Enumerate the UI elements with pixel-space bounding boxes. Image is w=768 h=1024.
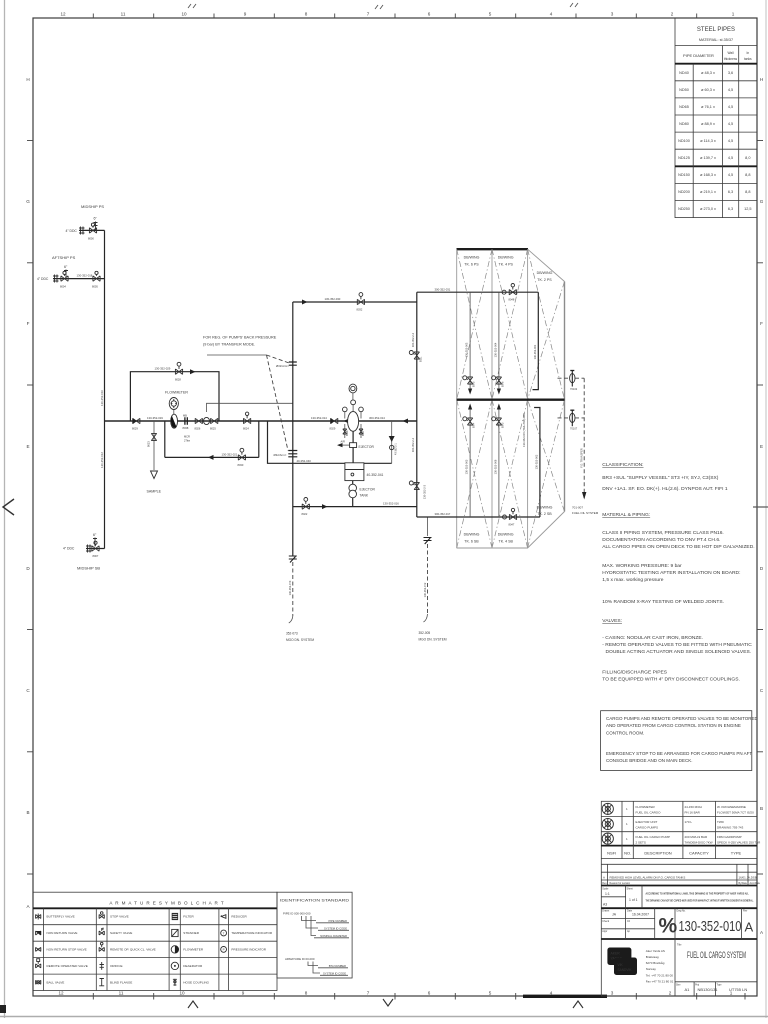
valve 8025 [210, 418, 218, 430]
svg-text:130-352-002: 130-352-002 [535, 454, 539, 469]
svg-text:8026: 8026 [195, 427, 201, 431]
svg-text:300-352-2-2: 300-352-2-2 [411, 437, 415, 452]
svg-text:130-352-072: 130-352-072 [423, 582, 427, 597]
svg-text:6,3: 6,3 [728, 190, 733, 194]
svg-text:130-352-073: 130-352-073 [288, 580, 292, 595]
svg-text:NON RETURN VALVE: NON RETURN VALVE [47, 931, 78, 935]
label tank 4 ps [498, 256, 514, 267]
wire ejector circulation riser [292, 302, 294, 556]
svg-text:EJECTOR UNIT: EJECTOR UNIT [636, 820, 658, 824]
symbol reducer [221, 915, 226, 919]
symbol butterfly valve [36, 914, 41, 920]
svg-text:BUTTERFLY VALVE: BUTTERFLY VALVE [47, 915, 75, 919]
svg-text:MIDSHIP PS: MIDSHIP PS [81, 204, 104, 209]
svg-text:PIPE NUMBER: PIPE NUMBER [328, 919, 347, 923]
wire bypass upper [130, 372, 219, 421]
svg-text:4,5: 4,5 [728, 139, 733, 143]
svg-text:24-150 M3/H: 24-150 M3/H [685, 805, 702, 809]
frame letters right [760, 77, 764, 935]
svg-text:- CASING: NODULAR CAST IRON, B: - CASING: NODULAR CAST IRON, BRONZE. [602, 635, 703, 641]
wire tk6 sb suction [468, 404, 472, 518]
svg-text:130-352-021: 130-352-021 [222, 452, 238, 456]
svg-text:ø 114,3 x: ø 114,3 x [700, 139, 716, 143]
svg-text:SYSTEM ID CODE: SYSTEM ID CODE [324, 927, 347, 931]
revision table [601, 864, 760, 885]
svg-text:200 M3/H-9 BAR: 200 M3/H-9 BAR [685, 835, 709, 839]
tank divider 4/2 [527, 249, 529, 548]
wire mgo branch right [419, 517, 447, 642]
svg-text:11: 11 [119, 991, 124, 996]
svg-text:ø 76,1 x: ø 76,1 x [701, 105, 715, 109]
svg-text:DOUBLE ACTING ACTUATOR AND SIN: DOUBLE ACTING ACTUATOR AND SINGLE SOLENO… [606, 649, 752, 655]
valve 8048 upper manifold [509, 284, 517, 302]
svg-text:300-352-031: 300-352-031 [435, 287, 451, 291]
svg-text:PIPE DIAMETER: PIPE DIAMETER [683, 53, 714, 58]
svg-text:300-352-014: 300-352-014 [369, 416, 385, 420]
wire tk6 ps suction [468, 292, 472, 394]
valve 8024 remote [243, 412, 251, 430]
center mark right dash [753, 506, 768, 508]
svg-text:40-352-040: 40-352-040 [297, 459, 312, 463]
svg-text:E: E [26, 444, 29, 449]
svg-text:ø 219,1 x: ø 219,1 x [700, 190, 716, 194]
svg-text:E: E [760, 444, 763, 449]
ruler numbers bottom [58, 991, 732, 996]
bottom strip [675, 981, 757, 983]
svg-text:SAMPLE: SAMPLE [147, 490, 162, 494]
svg-text:ø 273,0 x: ø 273,0 x [700, 207, 716, 211]
svg-text:7: 7 [367, 991, 370, 996]
svg-text:Norway: Norway [646, 967, 657, 971]
svg-text:BTA NUMBER: BTA NUMBER [329, 964, 346, 968]
svg-text:tanks: tanks [744, 57, 752, 61]
svg-text:2 SETS: 2 SETS [636, 841, 646, 845]
svg-text:8043: 8043 [501, 422, 504, 428]
svg-text:4: 4 [550, 12, 553, 17]
svg-text:TK. 4 PS: TK. 4 PS [499, 263, 514, 267]
svg-text:TEMPERATURE INDICATOR: TEMPERATURE INDICATOR [231, 931, 273, 935]
svg-text:HYDROSTATIC TESTING AFTER INST: HYDROSTATIC TESTING AFTER INSTALLATION O… [602, 570, 740, 576]
svg-text:4: 4 [550, 991, 553, 996]
ruler numbers top [60, 12, 734, 17]
center mark bottom v [383, 999, 393, 1006]
symbol remote operated valve [36, 959, 41, 968]
svg-text:130-352-006: 130-352-006 [494, 459, 498, 474]
svg-text:8038: 8038 [183, 426, 189, 430]
node AFTSHIP PS connection [37, 255, 76, 283]
svg-text:CARGO PUMPS: CARGO PUMPS [636, 826, 659, 830]
svg-text:Sheet: Sheet [627, 888, 634, 891]
svg-text:130-352-003: 130-352-003 [465, 342, 469, 357]
svg-text:40-352-041: 40-352-041 [367, 473, 384, 477]
label tank 6 sb [464, 533, 480, 544]
svg-text:DB/WING: DB/WING [464, 533, 480, 537]
steel pipes table [675, 18, 757, 218]
svg-text:8046: 8046 [501, 381, 504, 387]
paper scan edge left [4, 0, 6, 1018]
svg-text:130-352-010: 130-352-010 [679, 919, 742, 935]
svg-text:8032: 8032 [357, 308, 363, 312]
svg-text:FILLING/DISCHARGE PIPES: FILLING/DISCHARGE PIPES [602, 670, 667, 676]
svg-text:F: F [27, 321, 30, 326]
svg-text:Size: Size [676, 984, 681, 986]
svg-text:MB: MB [183, 413, 187, 417]
valve 8045 tk6 ps [463, 376, 476, 387]
svg-text:1:1: 1:1 [605, 892, 610, 896]
reducer upper manifold [502, 290, 506, 294]
flowmeter instrument FM [165, 391, 188, 415]
svg-text:BALL VALVE: BALL VALVE [47, 981, 65, 985]
svg-text:8022: 8022 [302, 512, 308, 516]
svg-text:SYSTEM ID CODE: SYSTEM ID CODE [323, 972, 346, 976]
svg-text:A: A [745, 920, 754, 935]
svg-text:THE DRAWING CAN NOT BE COPIED: THE DRAWING CAN NOT BE COPIED NOR USED F… [646, 900, 754, 903]
equipment logo row3 [602, 833, 613, 844]
svg-text:ARMATURE ID 00-000: ARMATURE ID 00-000 [285, 957, 315, 961]
symbol blind flange [99, 979, 104, 986]
svg-text:P: P [223, 948, 225, 952]
svg-text:ACCORDING TO INTERNATIONAL LAW: ACCORDING TO INTERNATIONAL LAWS, THIS DR… [646, 893, 749, 896]
svg-text:130-352-001: 130-352-001 [533, 344, 537, 359]
tank cell diagonals TK4 SB [492, 400, 528, 549]
svg-text:DB/WING: DB/WING [537, 506, 553, 510]
svg-text:FRM GARDPUMP: FRM GARDPUMP [717, 835, 742, 839]
svg-text:W. KROHNEMARINE: W. KROHNEMARINE [717, 805, 746, 809]
valve 8022 discharge [302, 498, 310, 517]
svg-text:DESCRIPTION: DESCRIPTION [644, 851, 671, 856]
svg-text:MCR: MCR [184, 435, 190, 439]
svg-text:Wall: Wall [727, 51, 733, 55]
svg-text:8: 8 [305, 991, 308, 996]
node MIDSHIP SB connection [63, 533, 100, 571]
svg-text:8025: 8025 [210, 427, 216, 431]
armature symbol chart [33, 892, 277, 990]
svg-text:12,5: 12,5 [744, 207, 751, 211]
valve 8005 aftship [92, 271, 100, 288]
label tank 4 sb [498, 533, 514, 544]
tank left edge [456, 249, 458, 548]
svg-text:Brattvaag: Brattvaag [646, 955, 659, 959]
svg-text:CAPACITY: CAPACITY [689, 851, 709, 856]
svg-text:AFTSHIP PS: AFTSHIP PS [52, 255, 76, 260]
svg-text:ND80: ND80 [679, 122, 689, 126]
svg-text:EJECTOR: EJECTOR [359, 445, 375, 449]
svg-text:ND100: ND100 [678, 139, 690, 143]
svg-text:TK. 6 PS: TK. 6 PS [464, 263, 479, 267]
label tank 2 sb [537, 506, 553, 517]
tank bottom chamfer [528, 512, 565, 549]
svg-text:PRESSURE INDICATOR: PRESSURE INDICATOR [231, 948, 266, 952]
center mark left arrow [3, 499, 14, 515]
wire transfer dashed [572, 378, 599, 515]
valve 8007 midship sb [92, 541, 99, 558]
svg-text:CLASSIFICATION:: CLASSIFICATION: [602, 462, 643, 468]
arrow bypass flow [190, 369, 196, 374]
svg-text:T: T [223, 931, 225, 935]
svg-text:10: 10 [181, 12, 187, 17]
valve 130-352-019 on main [132, 418, 140, 430]
svg-text:REMOTE OPERATED VALVE: REMOTE OPERATED VALVE [47, 964, 88, 968]
svg-text:8029: 8029 [132, 427, 138, 431]
svg-text:8030: 8030 [238, 463, 244, 467]
svg-text:130-352-004: 130-352-004 [494, 342, 498, 357]
svg-text:5: 5 [489, 991, 492, 996]
svg-text:352-073: 352-073 [286, 632, 298, 636]
svg-text:H: H [26, 77, 29, 82]
arrow main flow left2 [403, 419, 409, 424]
svg-text:ø 168,3 x: ø 168,3 x [700, 173, 716, 177]
svg-text:Proj: Proj [695, 983, 700, 986]
svg-text:BR3 +SUL "SUPPLY VESSEL" ST3 +: BR3 +SUL "SUPPLY VESSEL" ST3 +IY, SYJ, C… [602, 475, 718, 481]
ruler ticks bottom [93, 993, 745, 1000]
svg-text:6: 6 [428, 12, 431, 17]
wire ejector discharge [293, 506, 417, 508]
svg-text:TK. 2 PS: TK. 2 PS [537, 278, 552, 282]
svg-text:8023: 8023 [147, 441, 151, 447]
svg-text:8037: 8037 [362, 430, 365, 436]
tank top chamfer [528, 249, 565, 281]
svg-text:8024: 8024 [243, 427, 249, 431]
symbol non return valve [36, 931, 41, 935]
tank cell diagonals TK4 PS [492, 249, 528, 399]
svg-text:SPECK V-250 VALVES 250 TAR: SPECK V-250 VALVES 250 TAR [717, 841, 761, 845]
svg-text:3: 3 [611, 12, 614, 17]
symbol pressure indicator [221, 947, 227, 953]
svg-text:2: 2 [671, 12, 674, 17]
svg-text:CONSOLE BRIDGE AND ON MAIN DEC: CONSOLE BRIDGE AND ON MAIN DECK. [606, 758, 693, 763]
valve 8028 bypass [175, 362, 183, 381]
svg-text:130-352-030: 130-352-030 [325, 297, 341, 301]
svg-text:1: 1 [732, 12, 735, 17]
node MIDSHIP PS connection [66, 204, 105, 235]
valve 8004 aftship [60, 271, 68, 288]
deaerator vessel [343, 384, 364, 431]
svg-text:4" DDC: 4" DDC [37, 277, 49, 281]
svg-text:7: 7 [367, 12, 370, 17]
svg-text:ø 139,7 x: ø 139,7 x [700, 156, 716, 160]
company logo section [607, 939, 757, 996]
tank block outline [457, 249, 565, 548]
fold mark bottom caret 2 [573, 1001, 583, 1008]
svg-text:Ø32/Arm=: Ø32/Arm= [274, 453, 287, 457]
svg-text:4,5: 4,5 [728, 88, 733, 92]
svg-text:130-352-016: 130-352-016 [383, 502, 399, 506]
frame black bar bottom [523, 995, 607, 998]
svg-text:TWD: TWD [717, 820, 725, 824]
svg-text:SAFETY VALVE: SAFETY VALVE [110, 931, 132, 935]
svg-text:UT755 LN: UT755 LN [729, 987, 747, 992]
arrow transfer flow [302, 300, 308, 305]
svg-text:thickness: thickness [724, 57, 738, 61]
svg-text:TANDEM-DISC-7KW: TANDEM-DISC-7KW [685, 841, 713, 845]
wire upper manifold [417, 291, 539, 293]
svg-text:ND250: ND250 [678, 207, 690, 211]
identification standard box [277, 892, 352, 978]
svg-text:70107: 70107 [570, 427, 578, 431]
svg-text:130-352-029: 130-352-029 [155, 367, 171, 371]
svg-text:REMOTE OP. QUICK CL. VALVE: REMOTE OP. QUICK CL. VALVE [110, 948, 156, 952]
svg-text:MGO DN. SYSTEM: MGO DN. SYSTEM [286, 638, 314, 642]
fold mark bottom caret 1 [188, 1001, 198, 1008]
svg-text:1 of 1: 1 of 1 [629, 898, 638, 902]
control line thin [207, 403, 293, 412]
svg-text:Appr: Appr [602, 930, 607, 933]
fitting hose arm 1 [276, 362, 297, 368]
valve 8030 return [238, 448, 246, 467]
valve sample [147, 433, 157, 447]
svg-text:FUEL OIL CARGO PUMP: FUEL OIL CARGO PUMP [636, 835, 670, 839]
equipment logo row2 [602, 818, 613, 829]
svg-text:130-352-019: 130-352-019 [147, 416, 163, 420]
svg-text:A1: A1 [685, 987, 691, 992]
valve 8032 remote on transfer [357, 293, 365, 312]
sample funnel [151, 471, 158, 479]
svg-text:12: 12 [58, 991, 64, 996]
svg-text:- REMOTE OPERATED VALVES TO BE: - REMOTE OPERATED VALVES TO BE FITTED WI… [602, 642, 752, 648]
svg-text:6270 Brattvåg: 6270 Brattvåg [646, 961, 665, 965]
svg-text:4,5: 4,5 [728, 105, 733, 109]
svg-text:Check: Check [602, 920, 610, 923]
svg-text:REMOVED HIGH LEVEL ALARM ON F.: REMOVED HIGH LEVEL ALARM ON F.O. CARGO T… [610, 875, 686, 879]
valve 8029 main before ejector [330, 418, 338, 430]
svg-text:16/01 JA,DSB: 16/01 JA,DSB [739, 875, 757, 879]
svg-text:BLIND FLANGE: BLIND FLANGE [110, 981, 132, 985]
symbol strainer [172, 929, 178, 936]
svg-text:H: H [760, 77, 763, 82]
svg-text:70102: 70102 [570, 387, 578, 391]
symbol stop valve [99, 912, 104, 919]
wire tk2 ps drop [533, 292, 539, 389]
equipment logo row1 [602, 803, 613, 814]
svg-text:CLASS II PIPING SYSTEM, PRESSU: CLASS II PIPING SYSTEM, PRESSURE CLASS P… [602, 530, 724, 536]
svg-text:352-005: 352-005 [419, 631, 431, 635]
svg-text:AIR: AIR [341, 439, 345, 443]
wire tk4 sb suction [497, 404, 501, 518]
arrow discharge flow [322, 504, 328, 509]
svg-text:FUEL OIL CARGO: FUEL OIL CARGO [636, 811, 662, 815]
valve 8031 on riser [409, 351, 422, 363]
svg-text:Dwg No.: Dwg No. [677, 910, 687, 913]
svg-text:FOR REG. OF PUMPS' BACK PRESSU: FOR REG. OF PUMPS' BACK PRESSURE [203, 336, 277, 340]
svg-text:DOCUMENTATION ACCORDING TO DNV: DOCUMENTATION ACCORDING TO DNV PT.4 CH.6… [602, 537, 720, 543]
svg-text:3,6: 3,6 [728, 71, 733, 75]
fold marks top [188, 4, 196, 8]
svg-text:130-352-018: 130-352-018 [77, 273, 93, 277]
svg-text:8: 8 [305, 12, 308, 17]
svg-text:STOP VALVE: STOP VALVE [110, 915, 129, 919]
svg-text:11: 11 [121, 12, 126, 17]
title block equipment table [601, 801, 761, 996]
ejector assembly [337, 431, 374, 463]
svg-text:DEAERATOR: DEAERATOR [183, 964, 203, 968]
svg-text:9: 9 [242, 991, 245, 996]
svg-text:G: G [26, 199, 30, 204]
tank bottom line [457, 547, 529, 549]
label tank 6 ps [464, 256, 480, 267]
wire riser PS [104, 230, 106, 421]
svg-text:300-352-2-2: 300-352-2-2 [411, 332, 415, 347]
svg-text:A3: A3 [603, 903, 607, 907]
svg-text:EMERGENCY STOP TO BE ARRANGED: EMERGENCY STOP TO BE ARRANGED FOR CARGO … [606, 751, 752, 756]
frame letter ticks [27, 141, 763, 875]
svg-text:HOSE COUPLING: HOSE COUPLING [183, 981, 209, 985]
svg-text:FLOWJET 50MA 7CT IS/20: FLOWJET 50MA 7CT IS/20 [717, 811, 754, 815]
reducer lower manifold [503, 515, 507, 519]
ejector tank pump [349, 481, 376, 507]
frame letters left [26, 77, 30, 909]
svg-text:A: A [603, 875, 605, 879]
svg-text:6,3: 6,3 [728, 207, 733, 211]
paper scan edge right [765, 0, 767, 1018]
svg-text:4" DDC: 4" DDC [63, 547, 75, 551]
tank right edge [564, 282, 566, 512]
svg-text:STRAINER: STRAINER [183, 931, 199, 935]
svg-text:130-352-2-3: 130-352-2-3 [423, 484, 427, 499]
svg-text:F.O. TRANSFER: F.O. TRANSFER [580, 448, 584, 468]
svg-text:%: % [659, 915, 678, 938]
wire midship sb line [86, 548, 105, 550]
svg-text:Title: Title [677, 944, 682, 947]
svg-text:170 L: 170 L [685, 820, 693, 824]
wire main suction line [105, 420, 417, 422]
svg-text:8044: 8044 [473, 422, 476, 428]
svg-text:VALVES:: VALVES: [602, 618, 622, 624]
svg-text:MGO DN. SYSTEM: MGO DN. SYSTEM [419, 638, 447, 642]
symbol remote op quick cl valve [99, 942, 104, 951]
svg-text:8045: 8045 [473, 381, 476, 387]
svg-text:CONTROL ROOM.: CONTROL ROOM. [606, 730, 644, 735]
svg-text:B: B [760, 806, 763, 811]
wire ejector suction [268, 421, 392, 463]
svg-text:8029: 8029 [330, 427, 336, 431]
svg-text:TYPE: TYPE [731, 851, 742, 856]
svg-text:ORIFICE: ORIFICE [110, 964, 123, 968]
svg-text:NB130/131: NB130/131 [698, 987, 719, 992]
svg-text:10: 10 [179, 991, 185, 996]
svg-text:8,8: 8,8 [745, 190, 750, 194]
svg-text:DRAWING 793-743: DRAWING 793-743 [717, 826, 744, 830]
wire return bypass [165, 421, 259, 457]
wire riser SB [104, 421, 106, 549]
classification notes [602, 462, 754, 683]
svg-text:Ø32/Arm=: Ø32/Arm= [276, 364, 289, 368]
wire midship ps line [79, 229, 105, 231]
wire aftship ps line [53, 278, 105, 280]
svg-text:4,5: 4,5 [728, 122, 733, 126]
svg-text:(9 bar) BY TRANSFER MODE.: (9 bar) BY TRANSFER MODE. [203, 343, 255, 347]
symbol orifice [100, 962, 104, 970]
vent deaerator upper [558, 370, 585, 391]
orifice 8038 [183, 413, 189, 430]
tank top deck line [457, 248, 529, 250]
svg-text:DB/WING: DB/WING [498, 256, 514, 260]
svg-text:8005: 8005 [92, 285, 98, 289]
tank cell diagonals TK2 PS [528, 249, 565, 399]
wire transfer line top [293, 301, 417, 303]
svg-text:G: G [760, 199, 764, 204]
svg-text:DB/WING: DB/WING [537, 271, 553, 275]
svg-text:F: F [760, 321, 763, 326]
svg-text:ND125: ND125 [678, 156, 690, 160]
wire mgo branch left [286, 556, 314, 642]
valve 8046 tk4 ps [492, 376, 505, 387]
svg-text:8048: 8048 [509, 298, 515, 302]
tank cell diagonals TK2 SB [528, 400, 565, 549]
svg-text:By/Date: By/Date [739, 882, 748, 885]
svg-text:8,8: 8,8 [745, 173, 750, 177]
svg-text:8,0: 8,0 [745, 156, 750, 160]
svg-text:Fax +47 70 21 80 01: Fax +47 70 21 80 01 [646, 980, 674, 984]
